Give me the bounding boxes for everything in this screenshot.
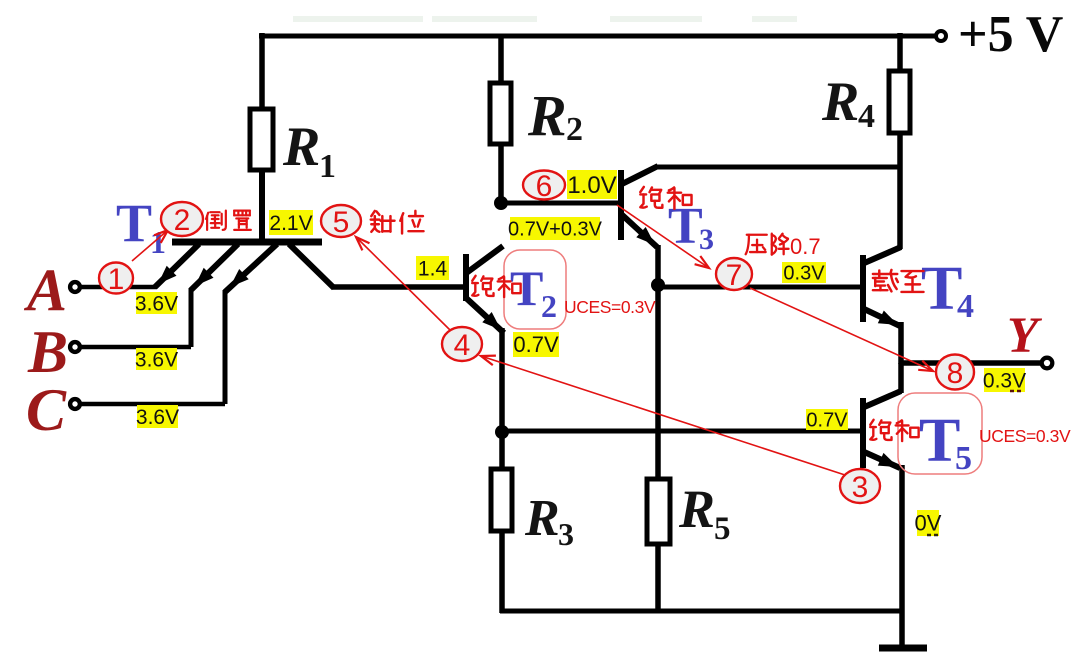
svg-text:2: 2: [566, 111, 583, 148]
wire: node to T5 base: [502, 429, 861, 434]
svg-text:5: 5: [714, 511, 731, 547]
svg-text:0.7V: 0.7V: [513, 332, 559, 357]
note 压降0.7 (drop 0.7): [746, 235, 767, 254]
svg-text:6: 6: [536, 170, 553, 203]
faint watermark remnants: [293, 16, 797, 22]
transistor T3 emitter: [620, 213, 657, 247]
svg-text:2: 2: [541, 288, 557, 324]
circled 4: [442, 327, 482, 361]
svg-text:4: 4: [454, 329, 471, 362]
svg-text:3.6V: 3.6V: [136, 406, 179, 429]
value 3.6V (A): [136, 292, 177, 314]
terminal B: [70, 342, 80, 352]
svg-text:1: 1: [108, 263, 125, 296]
wire: T4 emitter to Y node: [898, 322, 904, 364]
value 0.3V (Y): [984, 368, 1025, 392]
resistor R2: [490, 83, 511, 144]
T1 emitter arrowheads: [158, 266, 177, 284]
wire: Y node to T5 collector: [898, 363, 904, 393]
red arrow 7 to 8: [750, 288, 933, 371]
circled 1: [99, 263, 133, 294]
svg-text:0.7: 0.7: [790, 234, 821, 259]
wire: T1 collector to T2 base: [332, 284, 464, 290]
transistor T2 emitter: [465, 297, 504, 333]
svg-text:1: 1: [319, 148, 336, 185]
pink outline around T2: [504, 250, 566, 329]
circled 3: [840, 469, 880, 503]
transistor T4 emitter: [862, 308, 900, 326]
wire: Y output: [899, 360, 1041, 366]
resistor R5: [647, 479, 670, 544]
svg-text:0.3V: 0.3V: [783, 263, 825, 285]
value 1.4: [416, 256, 449, 280]
ground: [879, 645, 927, 652]
svg-text:0V: 0V: [915, 511, 942, 536]
svg-text:C: C: [26, 377, 67, 443]
value 1.0V: [567, 170, 617, 199]
transistor T3 base bar: [618, 170, 624, 240]
terminal +5V: [936, 31, 946, 41]
red arrow T3 to 7: [617, 205, 709, 268]
svg-text:R: R: [527, 83, 567, 148]
pink outline around T5: [898, 393, 982, 474]
transistor T1 emitter 3: [225, 244, 277, 292]
svg-text:1.4: 1.4: [418, 257, 448, 280]
T5 emitter arrowhead: [878, 453, 898, 467]
node: T2 emitter / R3 junction: [495, 425, 509, 439]
transistor T1 emitter 2: [191, 244, 238, 290]
red arrow 4 to 5: [356, 237, 450, 330]
wire: node to T4 base: [658, 285, 861, 290]
wire: input B vertical: [189, 288, 194, 347]
wire: +5V top rail: [259, 34, 937, 39]
transistor T1 emitter 1: [155, 244, 199, 287]
circled 8: [936, 355, 974, 390]
svg-text:3.6V: 3.6V: [135, 348, 178, 371]
note 钳位 (clamped): [371, 211, 395, 232]
value 0.7V+0.3V: [510, 217, 600, 240]
note 倒置 (inverted): [206, 211, 226, 230]
svg-text:+5 V: +5 V: [958, 6, 1063, 63]
svg-text:3: 3: [852, 471, 869, 504]
svg-text:T: T: [510, 260, 543, 316]
transistor T5 emitter: [862, 451, 900, 468]
circled 2: [161, 202, 203, 236]
value 0.7V (T2): [513, 332, 559, 357]
svg-text:0.7V+0.3V: 0.7V+0.3V: [508, 219, 603, 241]
svg-text:UCES=0.3V: UCES=0.3V: [564, 297, 656, 317]
wire: input C vertical: [223, 290, 228, 404]
wire: node to T3 base: [501, 201, 619, 206]
wire: input A: [81, 285, 157, 290]
red arrow 3 to 4: [481, 356, 845, 475]
svg-text:R: R: [678, 479, 715, 539]
circled 5: [321, 205, 361, 237]
wire: R1 branch vertical: [259, 33, 265, 110]
value 0V (T5 emitter): [917, 510, 939, 536]
wire: input B: [81, 345, 191, 350]
svg-text:3: 3: [699, 223, 714, 256]
circled 7: [716, 258, 752, 290]
svg-text:A: A: [23, 257, 67, 323]
note 饱和 T3 (saturated): [640, 187, 662, 208]
transistor T3 collector: [620, 166, 658, 185]
transistor T5 base bar: [860, 398, 866, 468]
svg-text:Y: Y: [1007, 308, 1043, 364]
transistor T5 collector: [862, 391, 901, 408]
resistor R1: [250, 109, 273, 170]
wire: bottom rail: [500, 609, 903, 614]
svg-text:2.1V: 2.1V: [269, 212, 312, 235]
resistor R4: [889, 71, 910, 133]
svg-text:1: 1: [150, 224, 166, 260]
transistor T1 base bar: [172, 239, 322, 246]
svg-text:4: 4: [858, 98, 875, 135]
transistor T2 collector: [465, 246, 503, 274]
svg-text:R: R: [524, 490, 560, 547]
terminal Y: [1042, 358, 1053, 369]
svg-text:T: T: [116, 193, 152, 253]
note 饱和 T5 (saturated): [870, 420, 891, 440]
wire: R2 to node: [498, 143, 504, 205]
svg-text:1.0V: 1.0V: [567, 172, 616, 199]
wire: T2 emitter down to node: [499, 328, 505, 434]
T2 emitter arrowhead: [482, 312, 501, 330]
value 3.6V (C): [137, 405, 178, 428]
value 3.6V (B): [136, 348, 177, 370]
T4 emitter arrowhead: [878, 311, 898, 326]
wire: T5 emitter to ground: [899, 465, 905, 648]
transistor T4 base bar: [860, 255, 866, 322]
svg-text:7: 7: [726, 259, 743, 292]
note 截至 (cutoff): [873, 270, 898, 291]
terminal A: [70, 282, 80, 292]
wire: R3 vertical: [499, 432, 505, 613]
value 0.7V (T5): [806, 409, 848, 430]
svg-text:B: B: [27, 319, 68, 385]
svg-text:0.3V: 0.3V: [983, 369, 1026, 392]
wire: R5 vertical: [655, 284, 661, 613]
wire: R2 branch vertical: [498, 36, 504, 84]
svg-text:4: 4: [957, 288, 974, 325]
red arrow 1 to 2: [132, 230, 168, 261]
svg-text:R: R: [821, 71, 859, 133]
wire: input C: [81, 402, 225, 407]
terminal C: [70, 399, 80, 409]
transistor T2 base bar: [463, 254, 469, 301]
resistor R3: [491, 469, 512, 531]
svg-text:3: 3: [558, 516, 574, 552]
transistor T1 collector: [289, 244, 334, 288]
value 2.1V: [269, 210, 313, 235]
node: R2/T2 collector junction: [494, 196, 508, 210]
wire: R4 to T4 collector: [897, 132, 903, 249]
svg-text:R: R: [282, 116, 320, 178]
T3 emitter arrowhead: [636, 227, 655, 245]
svg-text:2: 2: [174, 204, 191, 237]
svg-text:5: 5: [333, 206, 350, 239]
svg-text:8: 8: [947, 357, 964, 390]
wire: R1 to T1 base: [259, 169, 265, 243]
wire: T3 collector to R4: [656, 165, 900, 170]
value 0.3V (T4 base): [782, 262, 826, 283]
svg-text:3.6V: 3.6V: [135, 292, 178, 315]
circled 6: [523, 171, 565, 200]
wire: R4 branch vertical: [897, 33, 903, 72]
transistor T4 collector: [862, 247, 901, 264]
wire: T3 emitter down to node: [655, 245, 661, 286]
node: T3 emitter / R5 junction: [651, 278, 665, 292]
note 饱和 T2 (saturated): [472, 276, 493, 296]
svg-text:UCES=0.3V: UCES=0.3V: [979, 426, 1071, 446]
svg-text:5: 5: [955, 440, 972, 477]
svg-text:0.7V: 0.7V: [806, 410, 848, 432]
